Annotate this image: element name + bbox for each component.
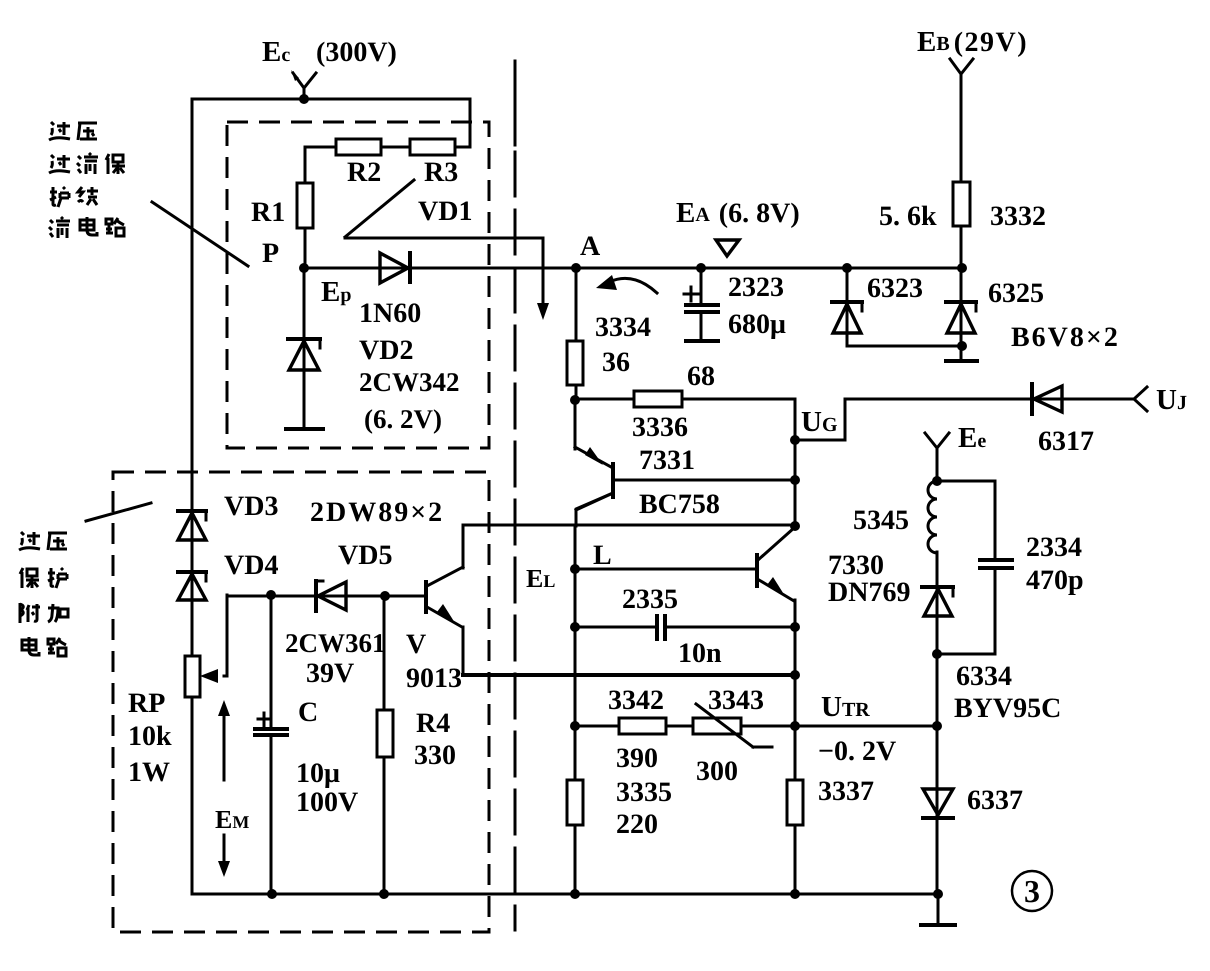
UJ input terminal chevron	[1134, 387, 1147, 411]
node: 6334 bottom junction	[932, 649, 942, 659]
label DN769	[828, 577, 910, 608]
node: Ee branch junction top	[932, 476, 942, 486]
label Ep	[321, 276, 351, 308]
EB supply terminal	[950, 59, 973, 182]
label 3337	[818, 776, 874, 807]
wire: bottom rail y=894	[192, 893, 938, 896]
svg-text:3332: 3332	[990, 201, 1046, 232]
wire: RP bottom to bottom rail corner	[191, 697, 194, 894]
node: collector rail right junction	[790, 521, 800, 531]
label P	[262, 238, 279, 269]
label V	[406, 629, 426, 660]
label R2	[347, 157, 381, 188]
zener VD4	[178, 572, 206, 600]
label 3336	[632, 412, 688, 443]
label UTR	[821, 691, 870, 723]
EM voltage arrows	[218, 700, 230, 877]
node: capacitor C tap	[266, 590, 276, 600]
node: bottom rail x=795	[790, 889, 800, 899]
label 220	[616, 809, 658, 840]
capacitor 2323 (electrolytic)	[684, 287, 718, 312]
node: bottom rail x=384	[379, 889, 389, 899]
wire: R2 to R3 link	[381, 146, 410, 149]
wire: collector rail y=525 from 9013 collector to 7330 collector	[463, 525, 795, 568]
svg-text:6325: 6325	[988, 278, 1044, 309]
label -0.2V	[818, 736, 896, 767]
wire: capacitor C top lead	[270, 595, 273, 728]
svg-text:470p: 470p	[1026, 565, 1084, 596]
label 6334	[956, 661, 1012, 692]
wire: top rail from left drop to R3 corner	[192, 99, 470, 147]
node: capacitor 2323 tap	[696, 263, 706, 273]
node A junction	[571, 263, 581, 273]
label RP	[128, 688, 165, 719]
wire: x=795 vertical UG to collector rail	[794, 440, 797, 526]
wire: resistor R4 bottom lead	[383, 757, 386, 894]
diode 6317	[1032, 384, 1062, 414]
node: UTR junction at x=937	[932, 721, 942, 731]
label 3332	[990, 201, 1046, 232]
svg-text:2DW89×2: 2DW89×2	[310, 497, 444, 528]
svg-text:9013: 9013	[406, 663, 462, 694]
wire: 7331 base rail to x=795	[615, 479, 795, 482]
node: 7331 base rail junction	[790, 475, 800, 485]
svg-text:680μ: 680μ	[728, 309, 786, 340]
coil 5345	[928, 481, 937, 553]
label 680u	[728, 309, 786, 340]
label 2323	[728, 272, 784, 303]
label 330	[414, 740, 456, 771]
label EA (6.8V)	[676, 197, 800, 229]
label R3	[424, 157, 458, 188]
label BC758	[639, 489, 720, 520]
wire: resistor R4 top lead	[383, 596, 386, 710]
diode 6337	[923, 789, 953, 818]
svg-text:6334: 6334	[956, 661, 1012, 692]
svg-text:6317: 6317	[1038, 426, 1094, 457]
label 10k	[128, 721, 172, 752]
svg-text:39V: 39V	[306, 658, 354, 689]
figure number circled 3	[1012, 871, 1052, 911]
label 2335	[622, 584, 678, 615]
svg-text:VD4: VD4	[224, 550, 278, 581]
node L junction	[570, 564, 580, 574]
wire: R2 left to R1 top	[305, 147, 336, 183]
resistor 3334	[567, 341, 583, 385]
wire: x=795 vertical 7330 emitter to bottom rail	[794, 600, 797, 780]
node: resistor R4 tap	[380, 591, 390, 601]
wire: 7331 collector drop to rail	[576, 493, 613, 526]
wire: resistor 3334 bottom to node below	[575, 385, 578, 400]
svg-text:(300V): (300V)	[316, 37, 397, 68]
svg-text:300: 300	[696, 756, 738, 787]
transistor V 9013 (NPN)	[426, 567, 463, 675]
svg-text:BC758: BC758	[639, 489, 720, 520]
transistor 7330 DN769 (NPN)	[757, 528, 794, 601]
ground bar below zener 6325	[946, 359, 977, 363]
label 9013	[406, 663, 462, 694]
svg-text:VD2: VD2	[359, 335, 413, 366]
svg-text:BYV95C: BYV95C	[954, 693, 1061, 724]
label EM	[215, 805, 249, 834]
wire: UTR rail 3343 to diode 6334 branch	[741, 725, 937, 728]
node: UTR junction at x=795	[790, 721, 800, 731]
svg-text:3334: 3334	[595, 312, 651, 343]
svg-text:3337: 3337	[818, 776, 874, 807]
svg-text:3336: 3336	[632, 412, 688, 443]
chinese caption upper: overvoltage overcurrent protection freewheel circuit	[49, 122, 125, 238]
label BYV95C	[954, 693, 1061, 724]
resistor 3335	[567, 780, 583, 825]
resistor 3332	[953, 182, 970, 226]
dashed separator line	[514, 61, 517, 930]
ground bar below VD2	[286, 427, 323, 431]
node: emitter rail right junction	[790, 670, 800, 680]
wire: resistor 3335 top lead	[574, 726, 577, 780]
svg-text:5345: 5345	[853, 505, 909, 536]
svg-text:VD1: VD1	[418, 196, 472, 227]
label 3334	[595, 312, 651, 343]
label Ec (300V)	[262, 36, 397, 68]
annotation pointer line (lower label)	[86, 503, 151, 521]
wire: zener 6323 bottom lead and link to 6325 foot	[847, 345, 962, 348]
node: 2335 left junction	[570, 622, 580, 632]
svg-text:VD3: VD3	[224, 491, 278, 522]
label VD2	[359, 335, 413, 366]
annotation pointer line (upper label)	[152, 202, 248, 266]
svg-text:2335: 2335	[622, 584, 678, 615]
label 470p	[1026, 565, 1084, 596]
svg-text:L: L	[593, 540, 612, 571]
label 2DW89x2	[310, 497, 444, 528]
resistor R4	[377, 710, 393, 757]
label EL	[526, 564, 555, 593]
label A	[580, 231, 601, 262]
wire: capacitor C bottom lead	[270, 736, 273, 894]
label 3343	[708, 685, 764, 716]
svg-text:3: 3	[1024, 873, 1040, 909]
svg-text:R2: R2	[347, 157, 381, 188]
svg-text:100V: 100V	[296, 787, 358, 818]
wire: x=937 down to diode 6337	[936, 654, 939, 894]
wire: UG jog to diode 6317	[795, 399, 1133, 440]
wire: capacitor 2323 top lead	[700, 268, 703, 304]
wire: 2335 rail left segment	[575, 626, 656, 629]
wire: capacitor 2323 bottom lead to ground	[700, 313, 703, 339]
wire: R1 bottom to node P	[304, 228, 307, 268]
label 300	[696, 756, 738, 787]
transistor 7331 BC758 (PNP)	[575, 447, 613, 510]
wire: zener 6323 top lead	[846, 268, 849, 346]
wire: capacitor 2334 bottom to junction	[937, 569, 995, 654]
svg-text:R1: R1	[251, 197, 285, 228]
chinese caption lower: overvoltage protection additional circuit	[19, 532, 68, 656]
svg-text:VD5: VD5	[338, 540, 392, 571]
label 7331	[639, 445, 695, 476]
node: 3342 left junction	[570, 721, 580, 731]
svg-text:2CW342: 2CW342	[359, 367, 460, 397]
svg-text:V: V	[406, 629, 426, 660]
label 7330	[828, 550, 884, 581]
svg-text:3342: 3342	[608, 685, 664, 716]
svg-text:B6V8×2: B6V8×2	[1011, 322, 1120, 353]
label 1W	[128, 757, 170, 788]
node: resistor 3332 foot	[957, 263, 967, 273]
label Ee	[958, 422, 986, 454]
node: bottom rail x=575	[570, 889, 580, 899]
svg-text:R3: R3	[424, 157, 458, 188]
EA node marker (open triangle)	[716, 240, 739, 256]
wire: node A down to resistor 3334	[575, 268, 578, 341]
label R4	[416, 708, 450, 739]
diode VD1 1N60	[380, 253, 410, 283]
label 1N60	[359, 298, 421, 329]
label (6.2V)	[364, 404, 442, 434]
wire: 9013 emitter rail y=675	[463, 673, 795, 677]
node: bottom rail right end junction	[933, 889, 943, 899]
label VD4	[224, 550, 278, 581]
dashed box: overvoltage protection additional circuit	[113, 472, 489, 932]
label 10u	[296, 758, 340, 789]
wire: junction to resistor 3336	[575, 398, 634, 401]
RP wiper arrow	[200, 595, 227, 683]
resistor 3336	[634, 391, 682, 407]
label 2334	[1026, 532, 1082, 563]
capacitor C (electrolytic)	[255, 713, 287, 735]
svg-text:R4: R4	[416, 708, 450, 739]
wire: resistor 3335 bottom lead	[574, 825, 577, 894]
label VD3	[224, 491, 278, 522]
svg-text:P: P	[262, 238, 279, 269]
label 68	[687, 361, 715, 392]
label 100V	[296, 787, 358, 818]
svg-text:10μ: 10μ	[296, 758, 340, 789]
svg-text:220: 220	[616, 809, 658, 840]
label UG	[801, 406, 838, 438]
node: zener pair foot junction	[957, 341, 967, 351]
svg-text:10n: 10n	[678, 638, 722, 669]
label 2CW342	[359, 367, 460, 397]
Ee supply terminal	[925, 433, 949, 481]
resistor R1	[297, 183, 313, 228]
svg-text:1N60: 1N60	[359, 298, 421, 329]
wire: base rail y=595 from wiper corner to VD5	[227, 595, 424, 598]
resistor 3343 (variable)	[693, 704, 772, 747]
label 6325	[988, 278, 1044, 309]
svg-text:3343: 3343	[708, 685, 764, 716]
svg-text:2323: 2323	[728, 272, 784, 303]
svg-text:2CW361: 2CW361	[285, 628, 386, 658]
zener VD5 2CW361	[316, 581, 346, 611]
Ec supply terminal	[291, 70, 316, 99]
label 6317	[1038, 426, 1094, 457]
curved arrow at node A	[596, 275, 657, 293]
resistor 3342	[619, 718, 666, 734]
label R1	[251, 197, 285, 228]
resistor 3337	[787, 780, 803, 825]
label L	[593, 540, 612, 571]
node P junction	[299, 263, 309, 273]
label VD1	[418, 196, 472, 227]
zener 6334	[922, 587, 953, 616]
svg-text:(6. 2V): (6. 2V)	[364, 404, 442, 434]
zener 6323	[832, 302, 862, 333]
wire: resistor 3337 bottom lead	[794, 825, 797, 894]
wire: main horizontal rail node P to resistor 3332 foot	[304, 267, 962, 270]
node: Ec junction	[299, 94, 309, 104]
label VD5	[338, 540, 392, 571]
svg-text:EB(29V): EB(29V)	[917, 26, 1028, 58]
svg-text:DN769: DN769	[828, 577, 910, 608]
label C	[298, 697, 318, 728]
svg-text:68: 68	[687, 361, 715, 392]
svg-text:−0. 2V: −0. 2V	[818, 736, 896, 767]
label UJ	[1156, 384, 1187, 416]
node UG junction	[790, 435, 800, 445]
zener VD3	[178, 511, 206, 540]
label 10n	[678, 638, 722, 669]
svg-text:EA(6. 8V): EA(6. 8V)	[676, 197, 800, 229]
wire: x=575 vertical collector rail down to bottom rail	[574, 525, 577, 726]
svg-text:3335: 3335	[616, 777, 672, 808]
label 36	[602, 347, 630, 378]
label EB (29V)	[917, 26, 1028, 58]
capacitor 2335	[657, 616, 665, 639]
label 2CW361	[285, 628, 386, 658]
svg-text:C: C	[298, 697, 318, 728]
potentiometer RP	[185, 656, 200, 697]
wire: resistor 3332 bottom lead	[960, 226, 963, 268]
label 3335	[616, 777, 672, 808]
ground symbol bottom right	[921, 894, 955, 925]
dashed box: overvoltage/overcurrent protection freewheel circuit	[227, 122, 489, 448]
svg-text:5. 6k: 5. 6k	[879, 201, 937, 232]
svg-text:A: A	[580, 231, 601, 262]
wire: UTR rail y=726 left of 3342	[575, 725, 619, 728]
svg-text:10k: 10k	[128, 721, 172, 752]
node: 2335 right junction / 7330 emitter	[790, 622, 800, 632]
annotation pointer line VD1 with down arrow	[345, 180, 549, 320]
node: bottom rail x=272	[267, 889, 277, 899]
wire: zener VD2 stem from node P	[303, 268, 306, 426]
capacitor 2334	[980, 560, 1012, 568]
resistor R2	[336, 139, 381, 155]
label 3342	[608, 685, 664, 716]
label 6337	[967, 785, 1023, 816]
svg-text:7331: 7331	[639, 445, 695, 476]
wire: left vertical rail x=192 down to VD3	[191, 99, 194, 656]
node: 3334 / 3336 / 7331 emitter junction	[570, 395, 580, 405]
label 39V	[306, 658, 354, 689]
wire: 2335 rail right segment	[665, 626, 795, 629]
resistor R3	[410, 139, 455, 155]
label 6323	[867, 273, 923, 304]
svg-text:36: 36	[602, 347, 630, 378]
wire: zener 6325 top lead	[960, 268, 963, 358]
wire: UTR rail between 3342 and 3343	[666, 725, 693, 728]
svg-text:1W: 1W	[128, 757, 170, 788]
node: diode 6323 tap	[842, 263, 852, 273]
wire: 7331 emitter lead from junction	[574, 400, 577, 449]
wire: coil 5345 bottom to zener 6334	[936, 552, 939, 654]
label B6V8x2	[1011, 322, 1120, 353]
svg-text:6323: 6323	[867, 273, 923, 304]
wire: node L base rail to 7330	[575, 568, 756, 571]
wire: branch to capacitor 2334 top	[937, 481, 995, 558]
svg-text:RP: RP	[128, 688, 165, 719]
svg-text:390: 390	[616, 743, 658, 774]
zener VD2	[288, 339, 320, 370]
svg-text:330: 330	[414, 740, 456, 771]
svg-text:2334: 2334	[1026, 532, 1082, 563]
svg-text:6337: 6337	[967, 785, 1023, 816]
label 5345	[853, 505, 909, 536]
ground bar below capacitor 2323	[686, 339, 718, 343]
wire: resistor 3336 right lead then down to UG node	[682, 399, 795, 440]
label 390	[616, 743, 658, 774]
zener 6325	[946, 302, 976, 333]
label 5.6k	[879, 201, 937, 232]
